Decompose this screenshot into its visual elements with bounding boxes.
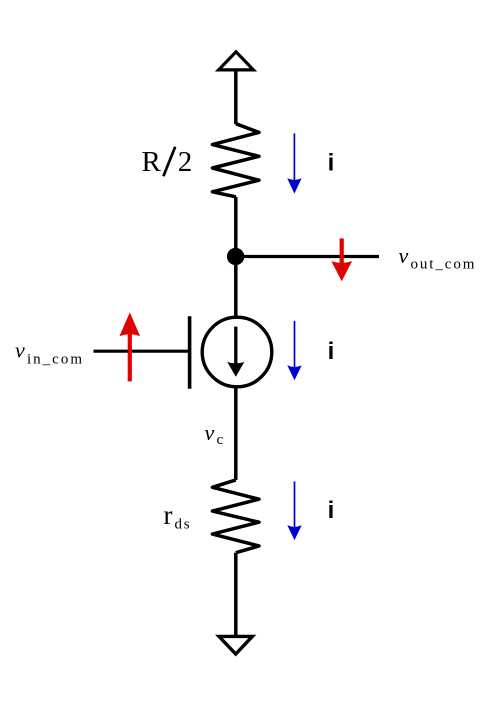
svg-text:i: i: [328, 338, 335, 365]
svg-text:r: r: [164, 500, 173, 530]
svg-text:R: R: [142, 146, 162, 178]
svg-text:v: v: [399, 243, 409, 268]
svg-text:2: 2: [178, 146, 193, 178]
svg-text:i: i: [328, 150, 335, 177]
svg-text:v: v: [205, 420, 215, 445]
svg-text:v: v: [15, 338, 25, 363]
svg-text:ds: ds: [175, 516, 192, 532]
svg-text:in_com: in_com: [27, 351, 84, 367]
svg-text:i: i: [328, 497, 335, 524]
svg-text:c: c: [217, 432, 224, 448]
svg-text:out_com: out_com: [411, 256, 477, 272]
